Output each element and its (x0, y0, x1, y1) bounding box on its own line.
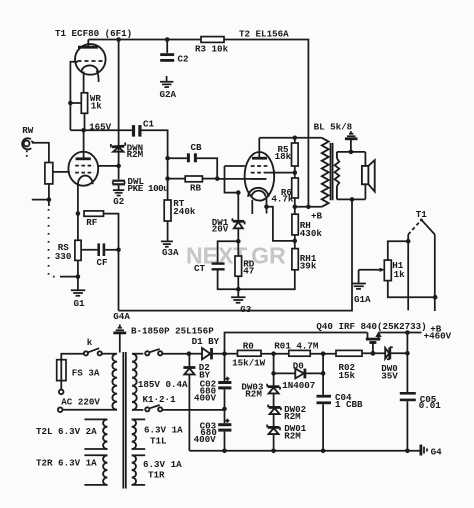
svg-text:G4A: G4A (113, 311, 130, 322)
transformer heater T1L (132, 419, 183, 449)
svg-text:k: k (87, 337, 93, 348)
transformer heater T2R (84, 455, 107, 485)
ground G3 (231, 289, 252, 315)
svg-text:G3: G3 (240, 304, 252, 315)
node DW1 bottom (236, 239, 241, 244)
tube V3 cathode lead (266, 198, 268, 214)
speaker (362, 152, 375, 200)
svg-text:185V 0.4A: 185V 0.4A (138, 379, 188, 390)
heater roof left (dashed) (408, 220, 421, 235)
node DW0 right (405, 351, 410, 356)
svg-text:1 CBB: 1 CBB (335, 399, 363, 410)
node D0 right (321, 371, 326, 376)
node main B+ junction (222, 351, 227, 356)
wire output top rail (259, 137, 322, 139)
node B+ feed (306, 205, 311, 210)
mosfet Q40 (366, 332, 382, 354)
node cathode bias top (236, 190, 241, 195)
node rail C05 (405, 449, 410, 454)
tube V1 grid (dashed) (78, 60, 104, 62)
node RS bottom (76, 274, 81, 279)
node rail zener chain (271, 449, 276, 454)
node rail C04 (321, 449, 326, 454)
node R01 right (321, 351, 326, 356)
node +B out (405, 330, 410, 335)
node H1 top tap (406, 239, 411, 244)
svg-text:T2L 6.3V 2A: T2L 6.3V 2A (36, 426, 97, 437)
ground G4 (sideways) (421, 445, 442, 458)
diode D0 1N4007 (274, 354, 324, 391)
zener DW03 R2M (241, 373, 280, 407)
svg-text:400V: 400V (194, 393, 217, 404)
wire PSU bottom rail (189, 450, 420, 452)
wire B+ up and top rail to Q40 (225, 333, 368, 354)
ground at secondary top (345, 131, 358, 152)
transformer mains primary winding (112, 354, 117, 410)
wire grid1 feed into V3 (217, 178, 266, 180)
wire pot bottom (32, 184, 49, 206)
wire AC bottom to primary (63, 409, 118, 411)
node 165V plate junction (81, 128, 86, 133)
transformer HT secondary 185V (132, 354, 137, 410)
svg-text:CB: CB (191, 142, 203, 153)
resistor RH 430k (292, 207, 322, 241)
capacitor CT (194, 241, 238, 289)
potentiometer WR 1k (68, 93, 102, 114)
svg-text:FS 3A: FS 3A (72, 367, 100, 378)
svg-text:+460V: +460V (424, 331, 452, 342)
svg-text:RW: RW (22, 125, 34, 136)
heater line right (434, 235, 436, 312)
capacitor C2 (160, 40, 188, 65)
wire V1 grid to left rail (70, 62, 78, 131)
wire plate to B+ rail top (88, 39, 201, 41)
resistor R0 15k/1W (225, 341, 289, 369)
svg-text:R2M: R2M (284, 430, 301, 441)
wire switch K to primary (102, 353, 117, 355)
svg-text:1k: 1k (91, 101, 103, 112)
resistor RD 47 (235, 241, 255, 289)
wire C1 to CB/RB node (142, 130, 168, 178)
tube V2 triode envelope (68, 152, 98, 186)
svg-text:G4: G4 (431, 446, 443, 457)
tube V3 grid row2 (dashed) (251, 172, 268, 174)
wire +B node (295, 206, 322, 208)
svg-text:C1: C1 (143, 118, 155, 129)
diode D1 (189, 348, 225, 359)
svg-text:18k: 18k (275, 151, 292, 162)
svg-text:T1R: T1R (148, 470, 165, 481)
input jack RW (22, 125, 34, 150)
svg-text:1k: 1k (394, 269, 406, 280)
H1 wiper arrow (359, 268, 385, 283)
svg-text:C2: C2 (178, 54, 189, 65)
fuse FS 3A (57, 360, 100, 381)
ground G1A (352, 284, 372, 306)
capacitor DWL PKE 100u (112, 176, 168, 194)
capacitor C1 (132, 118, 155, 136)
svg-text:330: 330 (55, 251, 72, 262)
svg-text:D0: D0 (293, 360, 304, 371)
resistor R3 (195, 37, 229, 55)
resistor RS 330 (55, 214, 81, 277)
tube V1 cathode (82, 65, 98, 72)
svg-text:PKE 100u: PKE 100u (128, 183, 169, 194)
tube V1 heater stub (97, 71, 99, 83)
svg-text:35V: 35V (381, 370, 398, 381)
svg-text:20V: 20V (212, 224, 229, 235)
wire R3 to +B node (224, 40, 308, 207)
wire screen tap to V3 (268, 172, 295, 174)
node RB/CB junction (215, 176, 220, 181)
resistor R01 (289, 350, 336, 356)
transformer BL secondary (335, 152, 340, 200)
node screen tap (293, 170, 298, 175)
svg-text:0.01: 0.01 (419, 400, 442, 411)
tube V3 plate (252, 138, 267, 158)
wire secondary bottom (337, 198, 366, 200)
heater roof right (421, 220, 434, 235)
svg-text:RB: RB (190, 182, 202, 193)
resistor R6 4.7k (271, 173, 298, 207)
svg-text:G2: G2 (113, 196, 124, 207)
resistor RH1 39k (292, 241, 317, 272)
wire mains left (61, 354, 84, 360)
capacitor CF (81, 243, 118, 268)
wire V2 grid row1 to DWN node (98, 165, 119, 167)
node pot bottom (47, 197, 52, 202)
wire RF right to feedback rail (104, 214, 119, 311)
zener DW02 R2M (268, 404, 306, 427)
ground G4A (pointing up) (113, 325, 126, 353)
svg-text:R2M: R2M (284, 411, 301, 422)
transformer heater T2L (84, 419, 107, 449)
transformer core (123, 352, 126, 489)
svg-text:+B: +B (311, 211, 323, 222)
tube V2 grid row2 (dashed) (75, 172, 94, 174)
node feedback takeoff (350, 197, 355, 202)
svg-text:430k: 430k (300, 228, 323, 239)
svg-text:240k: 240k (173, 206, 196, 217)
wire +B down to C05 (406, 333, 408, 393)
ground G2A (160, 76, 177, 100)
tube V3 heater stub (251, 200, 253, 214)
tube V3 grid row1 (dashed) (251, 165, 268, 167)
wire 165V rail (70, 129, 131, 131)
potentiometer volume (45, 163, 53, 184)
node RD bottom (236, 287, 241, 292)
switch K (84, 337, 102, 355)
resistor R02 15k (336, 350, 373, 381)
node DWN bottom grid tie (116, 164, 121, 169)
switch K1 bottom (132, 405, 225, 412)
svg-text:B-1850P 25L156P: B-1850P 25L156P (131, 326, 214, 337)
resistor RF (84, 211, 104, 228)
node CF feedback (116, 248, 121, 253)
wire WR bottom to 165V rail (84, 113, 86, 129)
capacitor C05 0.01 (400, 392, 441, 451)
svg-text:G1: G1 (74, 298, 86, 309)
svg-text:T1L: T1L (150, 436, 167, 447)
tube V2 plate (76, 130, 91, 159)
capacitor C03 680 400V (194, 409, 232, 451)
diode D2 (183, 354, 210, 451)
svg-text:Q40 IRF 840(25K2733): Q40 IRF 840(25K2733) (316, 321, 426, 332)
wire jack to volume pot (32, 143, 49, 163)
svg-text:R0: R0 (243, 341, 254, 352)
transformer BL primary (322, 138, 329, 207)
wire RS bottom left stub (60, 276, 78, 278)
svg-text:47: 47 (243, 265, 254, 276)
label +B +460V (424, 323, 452, 341)
wire RD bottom to RH1 bottom (238, 270, 294, 289)
zener DW01 R2M (267, 423, 307, 451)
tube V3 grid row3 (251, 178, 267, 180)
resistor RB (168, 176, 218, 193)
zener DW0 35V (373, 347, 408, 381)
tube V2 cathode lead (77, 184, 79, 213)
node H1 bottom tap (433, 295, 438, 300)
node R6 bottom (293, 205, 298, 210)
svg-text:15k/1W: 15k/1W (232, 358, 266, 369)
svg-text:K1·2·1: K1·2·1 (143, 394, 177, 405)
zener DW1 20V (212, 193, 245, 242)
node R0/R01 junction (271, 351, 276, 356)
svg-text:G3A: G3A (162, 247, 179, 258)
svg-text:R3 10k: R3 10k (195, 44, 229, 55)
svg-text:T1 ECF80 (6F1): T1 ECF80 (6F1) (55, 28, 132, 39)
capacitor C02 680 400V (194, 354, 231, 409)
tube V1 ECF80 pentode envelope (75, 44, 106, 75)
node roof peak (420, 219, 423, 222)
node C02/C03 junction (222, 407, 227, 412)
node RB left (165, 176, 170, 181)
resistor R5 18k (275, 138, 299, 173)
svg-text:G2A: G2A (160, 89, 177, 100)
tube V3 cathode dome (248, 188, 269, 197)
node Q40 gate (371, 351, 376, 356)
tube V2 grid row1 (dashed) (75, 165, 94, 167)
tube V2 cathode (78, 176, 93, 185)
svg-text:RF: RF (86, 217, 97, 228)
node CB top (165, 156, 170, 161)
node cathode (264, 204, 269, 209)
capacitor CB (168, 142, 218, 179)
svg-text:T2R 6.3V 1A: T2R 6.3V 1A (36, 457, 97, 468)
node rail C03 (222, 449, 227, 454)
svg-text:1N4007: 1N4007 (282, 380, 315, 391)
node D0 left (271, 371, 276, 376)
capacitor C04 1 CBB (317, 373, 364, 450)
wire feedback down and rail (119, 199, 353, 310)
svg-text:6.3V 1A: 6.3V 1A (143, 459, 182, 470)
wire secondary top (337, 151, 366, 153)
ground G2 (113, 185, 124, 207)
svg-text:15k: 15k (339, 370, 356, 381)
node D1 anode (187, 351, 192, 356)
node top rail left (116, 37, 121, 42)
zener DWN R2M (111, 142, 144, 159)
ground G3A (161, 241, 179, 258)
node cathode/RF (76, 211, 81, 216)
svg-text:CT: CT (194, 263, 206, 274)
heater line left (407, 235, 409, 311)
transformer heater T1R (132, 455, 182, 485)
jack shield dashes (26, 151, 28, 157)
node C2 tap (165, 37, 170, 42)
svg-text:BL 5k/8: BL 5k/8 (314, 121, 353, 132)
terminal AC bottom (58, 407, 63, 412)
svg-text:6.3V 1A: 6.3V 1A (144, 424, 183, 435)
svg-text:39k: 39k (300, 260, 317, 271)
svg-text:4.7k: 4.7k (271, 194, 294, 205)
dashed shield wire to RS bottom (49, 209, 60, 277)
terminal AC top (59, 381, 64, 395)
svg-text:R2M: R2M (127, 149, 144, 160)
wire cathode to RH tap (267, 207, 295, 241)
node R5 top (293, 136, 298, 141)
tube V1 cathode lead (83, 72, 85, 93)
vertical rail x118 from top (118, 40, 120, 180)
potentiometer H1 1k (384, 241, 435, 297)
tube V1 plate (78, 40, 98, 48)
switch K2 top (132, 349, 189, 356)
svg-text:D1 BY: D1 BY (192, 336, 220, 347)
ground G1 (71, 277, 85, 309)
wire V3 suppressor tie (225, 166, 245, 193)
svg-text:400V: 400V (194, 434, 217, 445)
svg-text:CF: CF (97, 257, 108, 268)
node RH bottom (293, 239, 298, 244)
wire Q40 source to +B out (379, 332, 422, 334)
wire pot wiper to V2 grid (53, 171, 70, 173)
svg-text:R2M: R2M (245, 389, 262, 400)
svg-text:AC 220V: AC 220V (61, 397, 100, 408)
svg-text:T2 EL156A: T2 EL156A (239, 29, 289, 40)
resistor RT 240k (164, 179, 196, 241)
transformer BL core (331, 143, 333, 200)
svg-text:G1A: G1A (354, 294, 371, 305)
tube V3 EL156 envelope (245, 152, 275, 201)
node secondary top ground tap (349, 150, 354, 155)
